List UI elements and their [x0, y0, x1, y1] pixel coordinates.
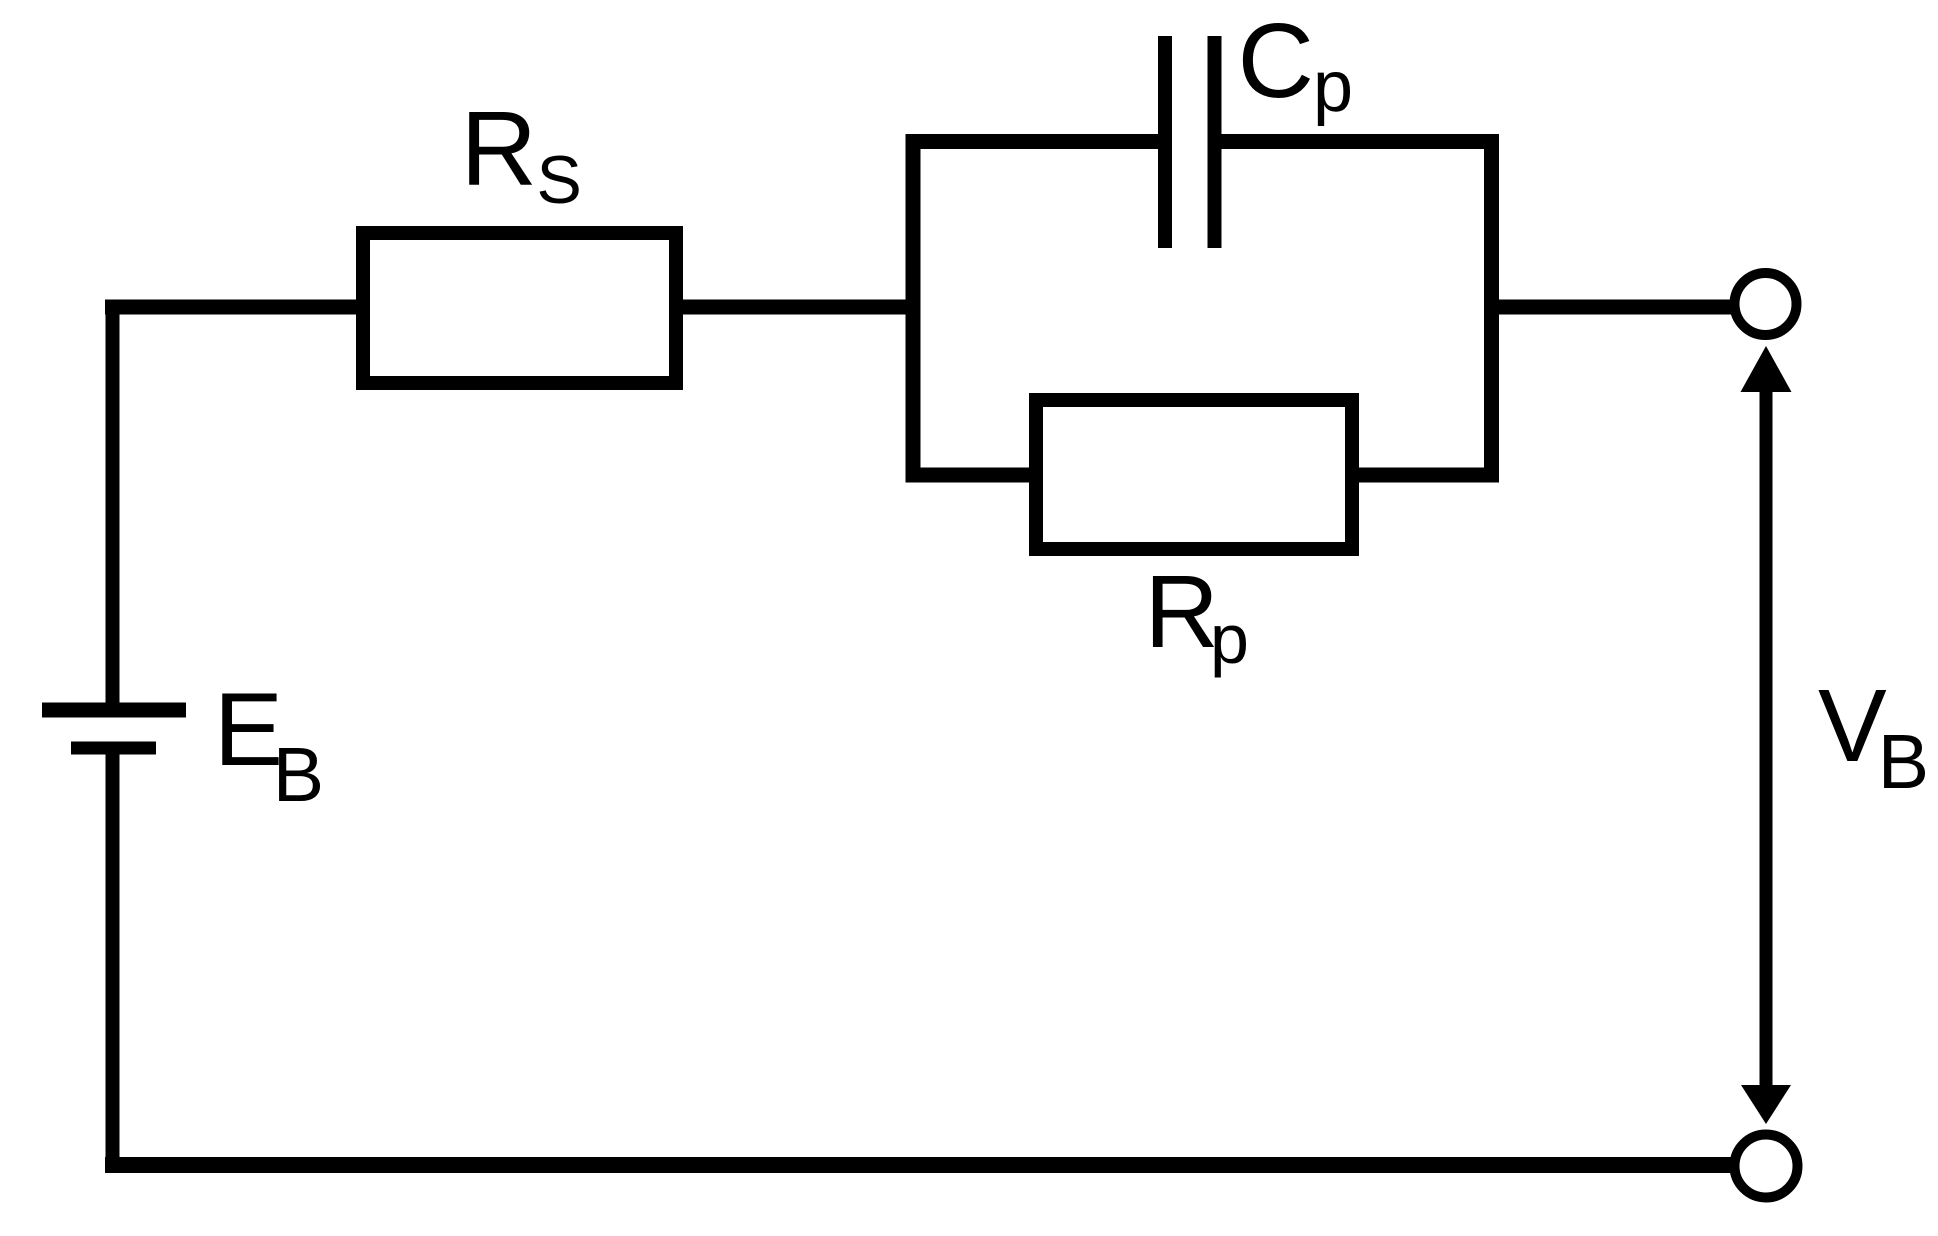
VB arrowhead up [1741, 346, 1792, 392]
battery EB short plate [71, 742, 156, 755]
svg-text:p: p [1210, 600, 1249, 678]
capacitor Cp gap (white) [1171, 126, 1209, 158]
capacitor Cp right plate [1208, 36, 1222, 248]
terminal bottom (node -) [1735, 1135, 1798, 1198]
svg-text:B: B [1878, 719, 1929, 805]
battery EB long plate [42, 703, 186, 718]
wire top horizontal from battery branch to parallel block [105, 300, 920, 315]
svg-text:B: B [273, 732, 324, 818]
VB measurement arrow shaft [1760, 380, 1773, 1095]
resistor Rp body [1036, 400, 1352, 549]
svg-text:p: p [1313, 47, 1353, 127]
capacitor Cp left plate [1158, 36, 1172, 248]
svg-text:R: R [1145, 554, 1219, 669]
resistor RS body [363, 233, 676, 383]
VB arrowhead down [1741, 1085, 1791, 1124]
wire parallel-block rectangle (Cp/Rp loop) [913, 142, 1492, 476]
wire left vertical from battery bottom plate to bottom wire [106, 750, 120, 1172]
wire bottom horizontal from battery branch to bottom terminal [105, 1157, 1740, 1173]
svg-text:S: S [537, 142, 582, 218]
wire from parallel block to top terminal [1491, 300, 1740, 315]
svg-text:R: R [461, 90, 538, 208]
terminal top (node +) [1735, 273, 1797, 335]
svg-text:V: V [1818, 668, 1887, 783]
svg-text:C: C [1238, 2, 1315, 120]
wire left vertical from top wire to battery top plate [106, 300, 120, 713]
